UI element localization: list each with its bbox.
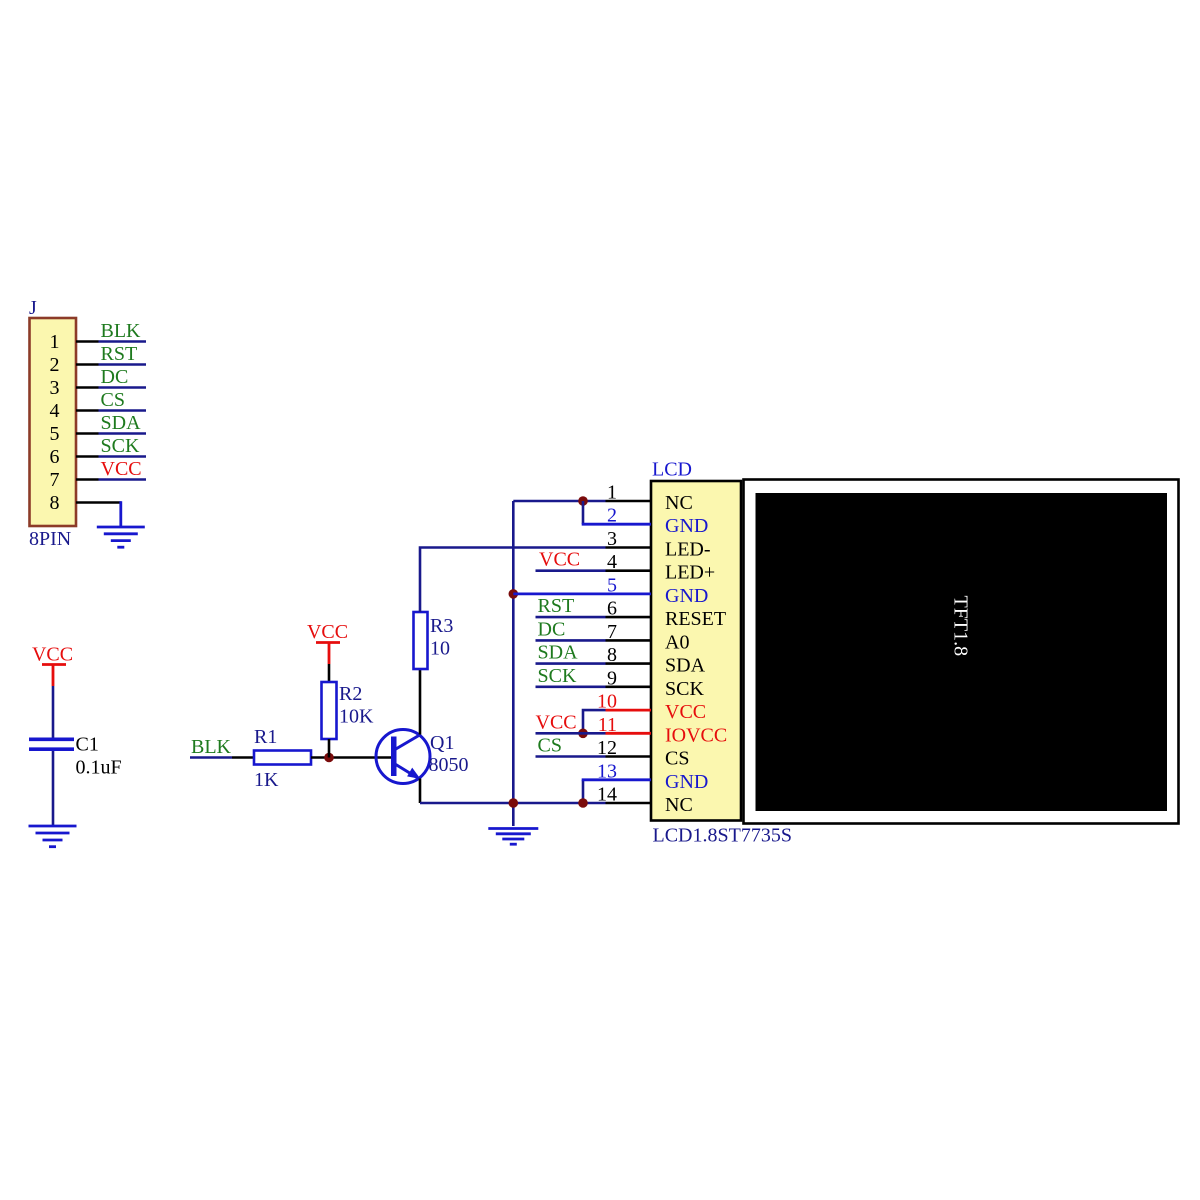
svg-text:SDA: SDA <box>101 412 142 434</box>
capacitor C1 <box>29 739 74 749</box>
svg-text:1: 1 <box>50 331 60 353</box>
connector J body <box>30 318 77 526</box>
svg-text:5: 5 <box>607 574 617 596</box>
svg-text:10K: 10K <box>339 706 374 728</box>
wire LCD pin10 VCC <box>583 710 606 733</box>
wire J pin 1 stub <box>76 340 99 343</box>
power symbol VCC (C1 branch) <box>32 644 73 687</box>
LCD pin 5 stub <box>606 593 652 596</box>
wire LCD pin8 <box>536 662 606 665</box>
svg-text:5: 5 <box>50 423 60 445</box>
svg-text:SCK: SCK <box>665 678 704 700</box>
resistor R3 <box>414 612 428 669</box>
svg-text:7: 7 <box>607 621 617 643</box>
svg-text:CS: CS <box>101 389 125 411</box>
junction pin10/pin11 <box>578 729 588 739</box>
wire LCD pin2 GND horizontal <box>582 523 606 526</box>
LCD pin 3 stub <box>606 546 652 549</box>
wire LCD pin12 CS <box>536 755 606 758</box>
wire J pin 8 to ground <box>119 501 122 526</box>
svg-text:NC: NC <box>665 492 693 514</box>
resistor R1 <box>254 751 311 765</box>
wire emitter to LCD pin14 <box>420 802 606 805</box>
svg-text:DC: DC <box>538 618 566 640</box>
wire net BLK at J pin 1 <box>99 340 147 343</box>
wire LCD pin9 <box>536 685 606 688</box>
junction rail pin14 <box>509 798 519 808</box>
TFT screen area <box>756 493 1168 811</box>
LCD pin 13 stub <box>606 778 652 781</box>
svg-text:VCC: VCC <box>665 701 706 723</box>
junction pin13/pin14 <box>578 798 588 808</box>
svg-text:6: 6 <box>607 598 617 620</box>
wire LCD pin11 IOVCC <box>536 732 606 735</box>
LCD pin 9 stub <box>606 685 652 688</box>
TFT module outline <box>744 480 1179 824</box>
wire LCD pin1 to rail <box>513 500 605 503</box>
svg-text:LCD1.8ST7735S: LCD1.8ST7735S <box>653 825 792 847</box>
ground at C1 <box>29 826 77 847</box>
junction pin1/pin2 <box>578 496 588 506</box>
svg-text:6: 6 <box>50 446 60 468</box>
svg-text:R2: R2 <box>339 683 362 705</box>
svg-text:A0: A0 <box>665 631 689 653</box>
svg-text:NC: NC <box>665 794 693 816</box>
wire LCD pin13 GND horizontal <box>582 778 606 781</box>
LCD pin 7 stub <box>606 639 652 642</box>
LCD pin 6 stub <box>606 616 652 619</box>
svg-text:VCC: VCC <box>307 621 348 643</box>
wire BLK to R1 <box>232 756 254 759</box>
wire LCD pin2 GND vertical <box>582 501 585 524</box>
wire J pin 4 stub <box>76 409 99 412</box>
svg-text:7: 7 <box>50 469 60 491</box>
svg-text:BLK: BLK <box>101 320 142 342</box>
wire J pin 7 stub <box>76 478 99 481</box>
LCD pin 11 stub <box>606 732 652 735</box>
svg-text:SCK: SCK <box>101 435 140 457</box>
LCD pin 4 stub <box>606 569 652 572</box>
svg-text:1: 1 <box>607 482 617 504</box>
svg-text:14: 14 <box>597 784 617 806</box>
svg-text:2: 2 <box>607 505 617 527</box>
transistor Q1 <box>376 730 430 784</box>
svg-text:IOVCC: IOVCC <box>665 724 727 746</box>
LCD pin 12 stub <box>606 755 652 758</box>
svg-text:10: 10 <box>430 638 450 660</box>
svg-text:DC: DC <box>101 366 129 388</box>
svg-text:3: 3 <box>50 377 60 399</box>
wire net RST at J pin 2 <box>99 363 147 366</box>
wire J pin 3 stub <box>76 386 99 389</box>
LCD pin 1 stub <box>606 500 652 503</box>
svg-text:VCC: VCC <box>539 549 580 571</box>
svg-text:0.1uF: 0.1uF <box>76 757 122 779</box>
svg-text:J: J <box>29 297 37 319</box>
wire LCD pin6 <box>536 616 606 619</box>
wire net DC at J pin 3 <box>99 386 147 389</box>
svg-text:GND: GND <box>665 771 708 793</box>
wire Q1 collector to R3 <box>419 669 422 735</box>
svg-text:SDA: SDA <box>538 642 579 664</box>
LCD pin 10 stub <box>606 709 652 712</box>
wire net CS at J pin 4 <box>99 409 147 412</box>
svg-text:8: 8 <box>607 644 617 666</box>
ground at rail bottom <box>488 829 538 845</box>
svg-text:3: 3 <box>607 528 617 550</box>
svg-text:TFT1.8: TFT1.8 <box>950 596 972 657</box>
svg-text:R1: R1 <box>254 726 277 748</box>
svg-text:GND: GND <box>665 515 708 537</box>
svg-text:VCC: VCC <box>536 711 577 733</box>
svg-text:Q1: Q1 <box>430 732 454 754</box>
svg-text:SDA: SDA <box>665 655 706 677</box>
svg-text:8050: 8050 <box>429 754 469 776</box>
wire J pin 2 stub <box>76 363 99 366</box>
wire Q1 emitter down <box>419 779 422 804</box>
svg-text:SCK: SCK <box>538 665 577 687</box>
wire LCD pin5 GND to rail <box>513 593 605 596</box>
wire VCC to C1 <box>52 686 55 738</box>
junction node base <box>324 753 334 763</box>
svg-text:4: 4 <box>50 400 60 422</box>
wire R2 to base node <box>328 739 331 758</box>
wire J pin 5 stub <box>76 432 99 435</box>
svg-text:8PIN: 8PIN <box>29 528 71 550</box>
svg-text:GND: GND <box>665 585 708 607</box>
junction rail pin5 <box>509 589 519 599</box>
wire C1 to ground <box>52 751 55 825</box>
svg-text:RESET: RESET <box>665 608 726 630</box>
wire VCC to R2 <box>328 664 331 682</box>
svg-text:LED+: LED+ <box>665 562 715 584</box>
svg-text:9: 9 <box>607 667 617 689</box>
wire BLK <box>190 756 232 759</box>
wire ground rail <box>512 501 515 826</box>
wire LCD pin4 LED+ <box>536 569 606 572</box>
wire net SDA at J pin 5 <box>99 432 147 435</box>
svg-text:4: 4 <box>607 551 617 573</box>
svg-text:8: 8 <box>50 492 60 514</box>
svg-text:2: 2 <box>50 354 60 376</box>
svg-text:1K: 1K <box>254 769 279 791</box>
svg-text:BLK: BLK <box>191 736 232 758</box>
LCD pin 14 stub <box>606 802 652 805</box>
svg-text:CS: CS <box>665 748 689 770</box>
svg-text:VCC: VCC <box>32 644 73 666</box>
svg-text:LED-: LED- <box>665 539 711 561</box>
svg-text:R3: R3 <box>430 615 453 637</box>
svg-text:C1: C1 <box>76 734 99 756</box>
wire R3 to LED- corner <box>420 548 606 613</box>
svg-text:CS: CS <box>538 735 562 757</box>
svg-text:RST: RST <box>538 595 575 617</box>
svg-text:LCD: LCD <box>652 459 692 481</box>
resistor R2 <box>322 682 337 739</box>
power symbol VCC (R2 branch) <box>307 621 348 664</box>
wire J pin 6 stub <box>76 455 99 458</box>
wire LCD pin7 <box>536 639 606 642</box>
wire net SCK at J pin 6 <box>99 455 147 458</box>
LCD pin 8 stub <box>606 662 652 665</box>
wire net VCC at J pin 7 <box>99 478 147 481</box>
wire R1 to Q1 base <box>311 756 391 759</box>
LCD pin 2 stub <box>606 523 652 526</box>
connector LCD body <box>651 481 741 821</box>
wire LCD pin13 GND vertical <box>582 780 585 803</box>
svg-text:RST: RST <box>101 343 138 365</box>
svg-text:VCC: VCC <box>101 458 142 480</box>
wire J pin 8 stub <box>76 501 121 504</box>
ground at J pin 8 <box>97 527 145 547</box>
